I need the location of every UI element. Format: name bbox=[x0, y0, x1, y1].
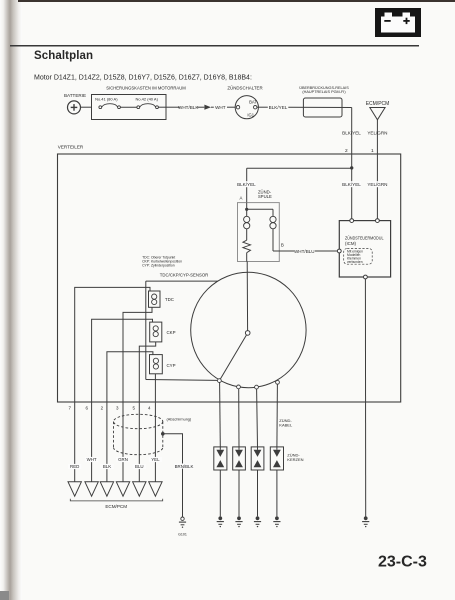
svg-text:BAT: BAT bbox=[249, 100, 257, 105]
svg-text:WHT/BLU: WHT/BLU bbox=[294, 249, 315, 254]
svg-text:YEL: YEL bbox=[151, 457, 160, 462]
svg-text:Motor D14Z1, D14Z2, D15Z8, D16: Motor D14Z1, D14Z2, D15Z8, D16Y7, D15Z6,… bbox=[34, 75, 252, 82]
svg-text:KABEL: KABEL bbox=[279, 422, 293, 427]
svg-text:BLK/YEL: BLK/YEL bbox=[342, 131, 361, 136]
svg-text:CYP: CYP bbox=[167, 363, 176, 368]
svg-text:YEL/GRN: YEL/GRN bbox=[367, 182, 387, 187]
svg-text:Schaltplan: Schaltplan bbox=[34, 50, 93, 62]
svg-text:BRN/BLK: BRN/BLK bbox=[175, 464, 194, 469]
svg-text:BLK/YEL: BLK/YEL bbox=[342, 182, 361, 187]
svg-text:ZÜNDSCHALTER: ZÜNDSCHALTER bbox=[227, 85, 262, 90]
svg-text:BLK: BLK bbox=[103, 464, 111, 469]
svg-text:WHT/BLK: WHT/BLK bbox=[178, 105, 199, 110]
svg-text:6: 6 bbox=[86, 406, 89, 411]
svg-text:KERZEN: KERZEN bbox=[287, 457, 303, 462]
svg-text:(HAUPTRELAIS PGM-FI): (HAUPTRELAIS PGM-FI) bbox=[302, 90, 346, 94]
svg-text:3: 3 bbox=[116, 406, 119, 411]
svg-text:TDC/CKP/CYP-SENSOR: TDC/CKP/CYP-SENSOR bbox=[160, 273, 208, 278]
svg-text:CYP: Zylinderposition: CYP: Zylinderposition bbox=[142, 264, 175, 268]
svg-text:B: B bbox=[281, 243, 284, 248]
svg-text:TDC: TDC bbox=[165, 297, 174, 302]
svg-text:GRN: GRN bbox=[118, 457, 128, 462]
svg-text:(Abschirmung): (Abschirmung) bbox=[167, 418, 192, 422]
svg-text:ECM/PCM: ECM/PCM bbox=[366, 101, 390, 107]
svg-text:(ICM): (ICM) bbox=[345, 241, 357, 246]
svg-text:VERTEILER: VERTEILER bbox=[58, 145, 84, 150]
svg-text:G101: G101 bbox=[178, 532, 187, 536]
svg-text:7: 7 bbox=[69, 406, 72, 411]
svg-text:IG1: IG1 bbox=[247, 112, 254, 117]
svg-text:BATTERIE: BATTERIE bbox=[64, 93, 86, 98]
svg-text:2: 2 bbox=[345, 148, 348, 154]
svg-text:No.42 (40 A): No.42 (40 A) bbox=[135, 96, 158, 101]
svg-text:RED: RED bbox=[70, 464, 79, 469]
svg-text:BLK/YEL: BLK/YEL bbox=[237, 182, 256, 187]
svg-text:CKP: CKP bbox=[167, 330, 176, 335]
svg-text:No.41 (80 A): No.41 (80 A) bbox=[95, 96, 118, 101]
svg-text:WHT: WHT bbox=[215, 105, 226, 110]
svg-text:2: 2 bbox=[101, 406, 104, 411]
svg-text:SPULE: SPULE bbox=[258, 194, 272, 199]
svg-text:4: 4 bbox=[148, 406, 151, 411]
svg-text:1: 1 bbox=[371, 148, 374, 154]
svg-text:ECM/PCM: ECM/PCM bbox=[105, 504, 127, 509]
svg-text:SICHERUNGSKASTEN IM MOTORRAUM: SICHERUNGSKASTEN IM MOTORRAUM bbox=[106, 85, 186, 90]
svg-text:verbunden: verbunden bbox=[347, 260, 363, 264]
svg-text:BLU: BLU bbox=[135, 464, 144, 469]
svg-text:A: A bbox=[240, 196, 243, 201]
svg-text:WHT: WHT bbox=[87, 457, 97, 462]
svg-text:BLK/YEL: BLK/YEL bbox=[269, 105, 288, 110]
svg-text:5: 5 bbox=[133, 406, 136, 411]
svg-text:23-C-3: 23-C-3 bbox=[378, 554, 427, 571]
svg-text:YEL/GRN: YEL/GRN bbox=[367, 131, 387, 136]
